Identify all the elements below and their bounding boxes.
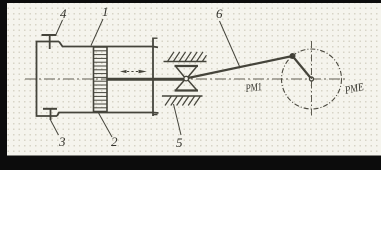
piston 2 hatch rungs	[94, 51, 107, 108]
cylinder bottom step	[57, 113, 159, 117]
label 6	[216, 7, 223, 20]
crank circle PME	[282, 49, 342, 109]
fulcrum top bar	[175, 65, 199, 67]
label PM1	[245, 82, 263, 95]
label 1	[102, 5, 109, 18]
port fitting 3 stem	[50, 109, 52, 120]
label 4	[60, 7, 67, 20]
circle vertical center line	[311, 41, 313, 118]
fulcrum bottom hatching	[165, 96, 201, 106]
frame bottom band	[0, 156, 381, 171]
fulcrum bottom bar	[175, 89, 199, 91]
cap bottom tick	[153, 114, 158, 116]
fulcrum 5 top ground line	[164, 61, 207, 63]
axis center line	[25, 78, 345, 80]
fulcrum pin joint	[184, 76, 189, 81]
label 5	[176, 136, 183, 149]
leader line 6	[220, 21, 241, 68]
cylinder top step	[59, 42, 158, 48]
label PME	[344, 82, 365, 97]
fulcrum bottom triangle	[176, 79, 197, 90]
crank pin	[290, 54, 295, 59]
cylinder right end cap	[152, 38, 154, 117]
piston 2 outline	[94, 47, 108, 112]
crank center pin	[310, 77, 314, 81]
crank arm	[293, 56, 312, 79]
frame top bar	[0, 0, 381, 3]
lever 6	[188, 56, 293, 78]
frame left bar	[0, 0, 7, 170]
cylinder body 1	[37, 42, 60, 117]
leader line 5	[174, 104, 182, 135]
port fitting 4 cap	[42, 34, 57, 36]
fulcrum 5 top hatching	[168, 52, 207, 62]
cap top tick	[153, 37, 158, 39]
fulcrum top triangle	[176, 67, 197, 78]
leader line 4	[56, 20, 63, 35]
label 2	[111, 135, 118, 148]
motion arrow	[120, 70, 147, 74]
leader line 3	[51, 120, 59, 135]
fulcrum bottom ground line	[162, 95, 203, 97]
leader line 2	[98, 112, 112, 137]
port fitting 3 cap	[43, 108, 57, 110]
label 3	[59, 135, 66, 148]
piston rod	[107, 78, 186, 81]
port fitting 4 stem	[49, 35, 51, 49]
leader line 1	[91, 19, 103, 46]
